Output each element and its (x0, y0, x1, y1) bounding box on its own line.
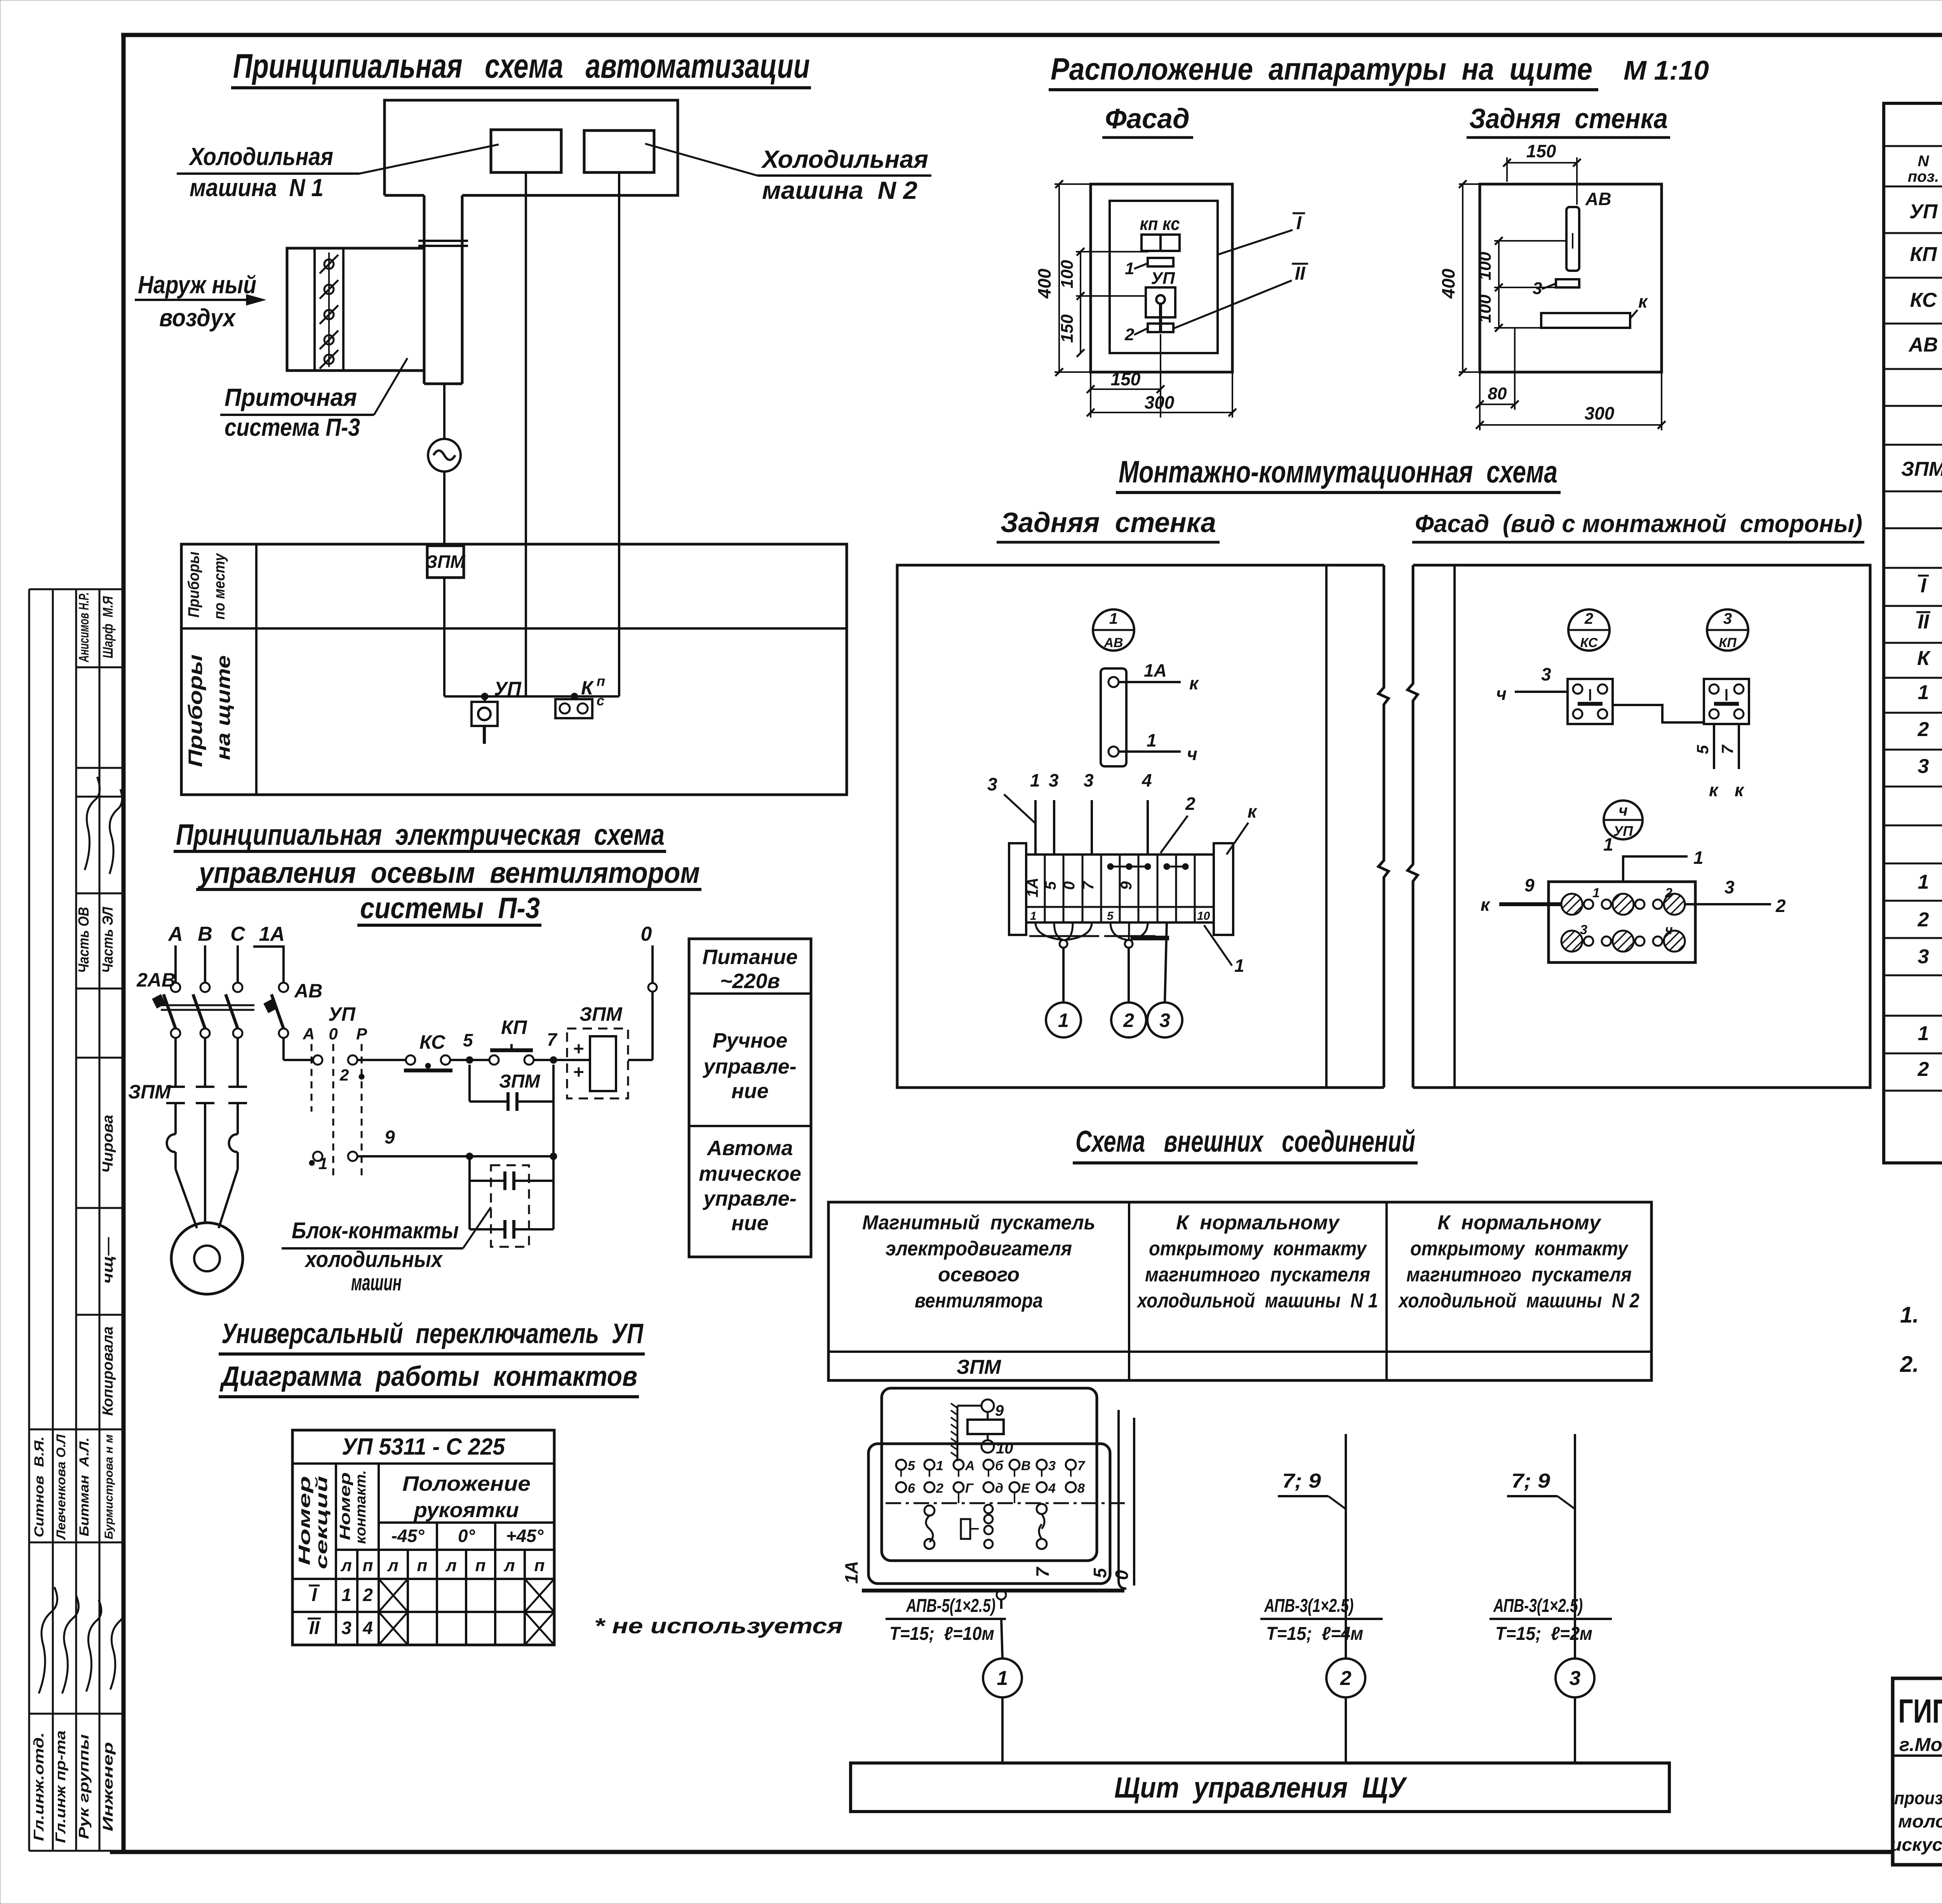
svg-text:300: 300 (1145, 392, 1175, 412)
svg-text:УП 5311 - С 225: УП 5311 - С 225 (342, 1434, 506, 1460)
svg-text:ние: ние (731, 1211, 769, 1235)
svg-text:М 1:10: М 1:10 (1624, 55, 1709, 85)
svg-text:Задняя стенка: Задняя стенка (1469, 103, 1668, 134)
svg-text:Задняя стенка: Задняя стенка (1001, 507, 1216, 538)
svg-text:* не используется: * не используется (594, 1613, 843, 1638)
svg-text:Принципиальная электрическая: Принципиальная электрическая схема (176, 818, 665, 851)
svg-text:по месту: по месту (211, 553, 228, 620)
svg-text:АВ: АВ (294, 980, 322, 1002)
svg-text:1: 1 (936, 1458, 943, 1473)
svg-text:молока в сутки с пунктом: молока в сутки с пунктом (1898, 1811, 1942, 1831)
svg-text:4: 4 (1048, 1481, 1056, 1496)
svg-text:I: I (1296, 213, 1302, 233)
svg-text:Холодильная: Холодильная (761, 145, 928, 173)
svg-text:КП: КП (1719, 635, 1737, 650)
svg-text:150: 150 (1058, 314, 1077, 343)
svg-text:1А: 1А (841, 1561, 861, 1584)
svg-text:2: 2 (1340, 1667, 1352, 1690)
svg-text:КП: КП (501, 1016, 527, 1038)
svg-text:АПВ-5(1×2.5): АПВ-5(1×2.5) (906, 1596, 995, 1616)
svg-text:1А: 1А (1024, 877, 1041, 897)
svg-text:Рук группы: Рук группы (76, 1734, 92, 1839)
svg-text:Номер: Номер (337, 1472, 353, 1540)
svg-text:п: п (597, 673, 605, 689)
svg-text:управле-: управле- (702, 1055, 797, 1078)
svg-text:ЗПМ: ЗПМ (579, 1003, 623, 1025)
svg-text:холодильной машины N 2: холодильной машины N 2 (1397, 1290, 1639, 1312)
svg-text:Диаграмма работы контактов: Диаграмма работы контактов (219, 1361, 637, 1392)
svg-text:0: 0 (329, 1025, 338, 1043)
svg-text:1: 1 (1030, 910, 1037, 922)
svg-text:3: 3 (987, 774, 997, 794)
svg-text:Т=15; ℓ=2м: Т=15; ℓ=2м (1495, 1624, 1592, 1644)
svg-text:к: к (1638, 291, 1648, 312)
svg-text:9: 9 (1524, 875, 1535, 895)
svg-text:5: 5 (1090, 1568, 1110, 1578)
svg-text:машина N 2: машина N 2 (762, 176, 917, 204)
svg-text:УП: УП (494, 678, 522, 700)
svg-text:В: В (1021, 1458, 1031, 1473)
svg-text:3: 3 (1159, 1009, 1170, 1031)
svg-text:Часть ОВ: Часть ОВ (76, 907, 92, 973)
svg-text:5: 5 (463, 1030, 473, 1050)
svg-text:к: к (1481, 895, 1491, 915)
svg-text:2: 2 (1918, 1058, 1929, 1081)
svg-text:3: 3 (1541, 664, 1551, 684)
svg-text:Наруж ный: Наруж ный (138, 271, 256, 299)
svg-text:машин: машин (351, 1270, 402, 1295)
svg-text:0: 0 (1061, 881, 1078, 890)
svg-text:Часть ЭЛ: Часть ЭЛ (100, 907, 116, 973)
svg-text:Приточная: Приточная (224, 383, 357, 411)
svg-text:б: б (995, 1458, 1004, 1473)
svg-text:магнитного пускателя: магнитного пускателя (1406, 1264, 1632, 1286)
svg-text:3: 3 (1918, 755, 1929, 778)
svg-text:7: 7 (1718, 745, 1737, 754)
svg-text:2: 2 (339, 1066, 349, 1084)
svg-text:7: 7 (547, 1029, 558, 1049)
svg-text:ГИПРОНИСЕЛЬХОЗ: ГИПРОНИСЕЛЬХОЗ (1898, 1693, 1942, 1730)
svg-text:искусственного осеменения: искусственного осеменения (1890, 1834, 1942, 1855)
svg-text:АПВ-3(1×2.5): АПВ-3(1×2.5) (1264, 1596, 1354, 1616)
svg-text:8: 8 (1077, 1481, 1085, 1496)
svg-text:Холодильная: Холодильная (188, 143, 333, 171)
svg-text:I: I (1921, 574, 1927, 597)
svg-text:Ситнов В.Я.: Ситнов В.Я. (32, 1436, 47, 1537)
svg-text:~220в: ~220в (720, 969, 780, 993)
svg-text:Щит управления ЩУ: Щит управления ЩУ (1114, 1771, 1408, 1804)
svg-text:С: С (230, 923, 245, 945)
svg-text:1: 1 (1030, 770, 1040, 790)
svg-text:система П-3: система П-3 (224, 413, 360, 441)
svg-text:ЗПМ: ЗПМ (957, 1356, 1002, 1378)
svg-text:Фасад: Фасад (1105, 103, 1190, 134)
svg-text:Анисимов Н.Р.: Анисимов Н.Р. (76, 592, 92, 663)
svg-text:-45°: -45° (392, 1526, 425, 1546)
svg-text:Шарф М.Я: Шарф М.Я (100, 596, 116, 658)
svg-text:Универсальный переключатель: Универсальный переключатель УП (221, 1318, 644, 1349)
svg-text:л: л (445, 1556, 456, 1575)
svg-text:электродвигателя: электродвигателя (886, 1237, 1072, 1260)
svg-text:секций: секций (312, 1476, 331, 1569)
svg-text:К: К (1917, 647, 1931, 670)
svg-text:Фасад (вид с монтажной сторо: Фасад (вид с монтажной стороны) (1415, 510, 1862, 538)
svg-text:Расположение аппаратуры на: Расположение аппаратуры на щите (1051, 52, 1592, 86)
svg-text:п: п (363, 1556, 373, 1575)
svg-text:1: 1 (341, 1585, 352, 1605)
svg-text:Монтажно-коммутационная схема: Монтажно-коммутационная схема (1119, 454, 1557, 489)
svg-text:3: 3 (1723, 610, 1732, 627)
svg-text:Чирова: Чирова (100, 1115, 116, 1173)
svg-text:1А: 1А (259, 923, 285, 945)
svg-text:2: 2 (1665, 886, 1672, 900)
svg-text:Блок-контакты: Блок-контакты (292, 1218, 459, 1243)
svg-text:3: 3 (1570, 1667, 1581, 1690)
svg-text:2: 2 (1124, 325, 1135, 344)
svg-text:Битман А.Л.: Битман А.Л. (77, 1438, 92, 1537)
svg-text:Левченкова О.Л: Левченкова О.Л (54, 1434, 68, 1540)
svg-text:Гл.инж пр-та: Гл.инж пр-та (52, 1730, 68, 1843)
svg-text:2АВ: 2АВ (136, 969, 176, 991)
svg-text:2: 2 (362, 1585, 373, 1605)
svg-text:7; 9: 7; 9 (1282, 1470, 1321, 1492)
svg-text:3: 3 (1724, 877, 1735, 897)
svg-text:7: 7 (1077, 1458, 1086, 1473)
svg-text:л: л (387, 1556, 398, 1575)
svg-text:2: 2 (1185, 794, 1195, 814)
svg-text:к: к (1248, 801, 1258, 821)
svg-text:открытому контакту: открытому контакту (1149, 1237, 1368, 1260)
svg-text:системы П-3: системы П-3 (360, 892, 540, 925)
svg-text:Питание: Питание (702, 945, 798, 969)
svg-text:л: л (340, 1556, 352, 1575)
svg-text:с: с (597, 693, 604, 708)
svg-text:А: А (167, 923, 183, 945)
svg-text:2: 2 (1918, 718, 1929, 741)
svg-text:1А: 1А (1144, 660, 1167, 680)
svg-text:ЗПМ: ЗПМ (1901, 458, 1942, 480)
svg-text:А: А (303, 1025, 315, 1043)
svg-text:п: п (475, 1556, 486, 1575)
svg-text:100: 100 (1058, 260, 1077, 289)
svg-text:управления осевым вентилятор: управления осевым вентилятором (197, 856, 700, 889)
svg-text:Г: Г (965, 1481, 974, 1496)
svg-text:Приборы: Приборы (184, 654, 206, 767)
svg-text:+45°: +45° (506, 1526, 544, 1546)
svg-text:1: 1 (1693, 848, 1704, 868)
svg-text:ч: ч (1496, 684, 1507, 704)
svg-text:N: N (1918, 153, 1930, 170)
svg-text:9: 9 (385, 1127, 395, 1148)
svg-text:3: 3 (341, 1618, 352, 1638)
svg-text:9: 9 (1118, 881, 1135, 890)
svg-text:ние: ние (731, 1079, 769, 1103)
svg-text:Схема внешних соединений: Схема внешних соединений (1075, 1124, 1415, 1158)
svg-text:Ручное: Ручное (712, 1029, 787, 1052)
svg-text:ч: ч (1618, 802, 1627, 819)
svg-text:на щите: на щите (212, 655, 234, 760)
svg-text:КС: КС (419, 1031, 445, 1053)
svg-text:г.Москва: г.Москва (1899, 1735, 1942, 1755)
svg-text:управле-: управле- (702, 1187, 797, 1210)
svg-text:Положение: Положение (402, 1472, 531, 1495)
svg-text:3: 3 (1580, 922, 1587, 937)
svg-text:Автома: Автома (706, 1136, 793, 1160)
svg-text:100: 100 (1476, 252, 1495, 280)
svg-text:Е: Е (1021, 1481, 1030, 1496)
svg-text:1.: 1. (1900, 1302, 1919, 1328)
svg-text:Т=15; ℓ=10м: Т=15; ℓ=10м (889, 1624, 994, 1644)
svg-text:300: 300 (1585, 403, 1615, 423)
svg-text:Приборы: Приборы (185, 552, 202, 618)
svg-text:4: 4 (362, 1618, 373, 1638)
svg-text:II: II (309, 1618, 320, 1638)
svg-text:2: 2 (1775, 896, 1786, 916)
svg-text:рукоятки: рукоятки (413, 1498, 519, 1522)
svg-text:В: В (198, 923, 212, 945)
svg-text:ч: ч (1187, 744, 1197, 764)
svg-text:холодильных: холодильных (304, 1247, 443, 1272)
svg-text:2: 2 (1123, 1009, 1134, 1031)
svg-text:3: 3 (1084, 770, 1094, 790)
svg-text:150: 150 (1526, 141, 1556, 161)
svg-text:1: 1 (1918, 1022, 1929, 1045)
svg-text:чщ—: чщ— (100, 1237, 116, 1284)
svg-text:2: 2 (1584, 610, 1593, 627)
svg-text:КС: КС (1910, 289, 1937, 312)
svg-text:150: 150 (1111, 369, 1141, 389)
svg-text:0: 0 (1112, 1570, 1132, 1580)
svg-text:80: 80 (1488, 384, 1507, 403)
svg-text:Копировала: Копировала (100, 1326, 116, 1416)
svg-text:1: 1 (997, 1667, 1008, 1690)
svg-text:л: л (503, 1556, 515, 1575)
svg-text:2: 2 (936, 1481, 943, 1496)
svg-text:Инженер: Инженер (100, 1742, 116, 1831)
svg-text:УП: УП (1909, 200, 1938, 223)
svg-text:Магнитный пускатель: Магнитный пускатель (862, 1211, 1095, 1234)
svg-text:1: 1 (1109, 610, 1118, 627)
svg-text:КП: КП (1910, 243, 1937, 266)
svg-text:5: 5 (1042, 881, 1059, 890)
svg-text:5: 5 (1693, 745, 1712, 754)
svg-text:ЗПМ: ЗПМ (426, 552, 466, 572)
svg-text:А: А (965, 1458, 975, 1473)
svg-text:производительностью 6 тонн: производительностью 6 тонн (1894, 1788, 1942, 1808)
svg-text:К нормальному: К нормальному (1437, 1211, 1602, 1234)
svg-text:Номер: Номер (295, 1476, 313, 1565)
svg-text:УП: УП (328, 1003, 356, 1025)
svg-text:100: 100 (1476, 294, 1495, 323)
svg-text:9: 9 (995, 1402, 1004, 1419)
svg-text:поз.: поз. (1908, 168, 1939, 185)
svg-text:400: 400 (1034, 268, 1055, 299)
svg-text:к: к (1709, 780, 1719, 800)
svg-text:открытому контакту: открытому контакту (1410, 1237, 1629, 1260)
svg-text:к: к (1189, 673, 1199, 693)
svg-text:Бурмистрова н м: Бурмистрова н м (103, 1434, 115, 1539)
svg-text:осевого: осевого (938, 1264, 1020, 1286)
svg-text:АВ: АВ (1585, 189, 1611, 209)
svg-text:II: II (1295, 263, 1306, 284)
svg-text:Т=15; ℓ=4м: Т=15; ℓ=4м (1266, 1624, 1363, 1644)
svg-text:2: 2 (1918, 908, 1929, 931)
svg-text:2.: 2. (1900, 1352, 1919, 1377)
svg-text:400: 400 (1438, 268, 1458, 299)
svg-text:5: 5 (1107, 910, 1114, 922)
svg-text:вентилятора: вентилятора (915, 1290, 1043, 1312)
svg-text:п: п (534, 1556, 545, 1575)
svg-text:1: 1 (1603, 834, 1613, 855)
svg-text:п: п (417, 1556, 428, 1575)
svg-text:5: 5 (908, 1458, 915, 1473)
svg-text:Гл.инж.отд.: Гл.инж.отд. (31, 1732, 47, 1841)
svg-text:холодильной машины N 1: холодильной машины N 1 (1136, 1290, 1378, 1312)
svg-text:0°: 0° (458, 1526, 475, 1546)
svg-text:3: 3 (1918, 945, 1929, 968)
svg-text:кп кс: кп кс (1140, 214, 1180, 234)
svg-text:10: 10 (996, 1440, 1013, 1457)
svg-text:6: 6 (908, 1481, 915, 1496)
svg-text:II: II (1918, 611, 1930, 633)
svg-text:3: 3 (1048, 1458, 1056, 1473)
svg-text:К нормальному: К нормальному (1176, 1211, 1340, 1234)
svg-text:УП: УП (1151, 269, 1175, 288)
svg-text:1: 1 (1918, 681, 1929, 704)
svg-text:к: к (1735, 780, 1745, 800)
svg-text:воздух: воздух (159, 304, 236, 332)
svg-text:АВ: АВ (1103, 635, 1123, 650)
svg-text:3: 3 (1049, 770, 1059, 790)
svg-text:7: 7 (1080, 881, 1097, 890)
svg-text:магнитного пускателя: магнитного пускателя (1145, 1264, 1370, 1286)
svg-text:0: 0 (641, 923, 652, 945)
svg-text:АПВ-3(1×2.5): АПВ-3(1×2.5) (1493, 1596, 1583, 1616)
svg-text:7: 7 (1032, 1566, 1053, 1577)
svg-text:ЗПМ: ЗПМ (499, 1071, 540, 1092)
svg-text:1: 1 (1918, 871, 1929, 893)
svg-text:4: 4 (1142, 770, 1152, 790)
svg-text:машина N 1: машина N 1 (190, 174, 324, 202)
svg-text:1: 1 (1058, 1009, 1069, 1031)
svg-text:Принципиальная схема автом: Принципиальная схема автоматизации (233, 47, 810, 85)
svg-text:тическое: тическое (699, 1162, 801, 1185)
svg-text:д: д (995, 1481, 1003, 1496)
svg-text:3: 3 (1533, 279, 1542, 298)
svg-text:ч: ч (1665, 922, 1673, 937)
svg-text:1: 1 (1125, 259, 1134, 278)
svg-text:К: К (581, 677, 594, 699)
svg-text:1: 1 (1147, 730, 1157, 750)
svg-text:УП: УП (1613, 823, 1633, 839)
svg-text:КС: КС (1580, 635, 1597, 650)
svg-text:I: I (311, 1585, 317, 1605)
svg-text:10: 10 (1197, 910, 1210, 922)
svg-text:Р: Р (356, 1025, 367, 1043)
svg-text:контакт.: контакт. (353, 1470, 369, 1544)
svg-text:7; 9: 7; 9 (1511, 1470, 1550, 1492)
svg-text:АВ: АВ (1908, 334, 1938, 356)
svg-text:1: 1 (1234, 955, 1244, 976)
svg-text:ЗПМ: ЗПМ (128, 1081, 171, 1103)
svg-text:1: 1 (1592, 886, 1600, 900)
